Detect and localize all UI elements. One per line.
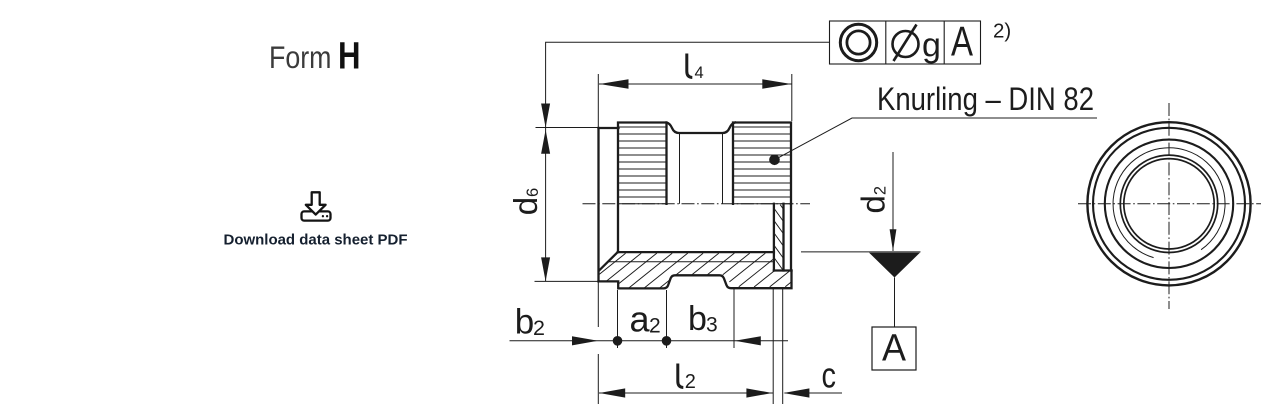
knurl band 1 <box>618 123 667 253</box>
c arrow <box>783 388 809 397</box>
d6 dimension line <box>545 128 547 281</box>
groove floor edges <box>680 133 723 204</box>
svg-text:2: 2 <box>685 371 696 393</box>
svg-text:b: b <box>688 300 707 338</box>
l2 and c dimension line <box>599 392 842 394</box>
dimension labels <box>507 54 1094 396</box>
download icon dots <box>322 215 329 217</box>
l4 dimension line <box>599 83 792 85</box>
svg-text:2: 2 <box>649 315 661 338</box>
end view <box>1078 103 1261 309</box>
b2 arrow <box>572 336 598 345</box>
svg-text:H: H <box>338 36 361 78</box>
datum triangle <box>869 253 920 278</box>
svg-text:c: c <box>822 354 837 395</box>
arrowheads <box>541 79 920 397</box>
svg-text:2: 2 <box>533 316 545 340</box>
svg-text:g: g <box>922 27 941 65</box>
svg-text:Download data sheet PDF: Download data sheet PDF <box>224 233 408 249</box>
l4 extension lines <box>598 74 792 127</box>
groove profile <box>667 123 736 134</box>
leader to tolerance frame <box>546 42 830 128</box>
thread major line <box>609 261 774 263</box>
knurl lines <box>619 127 791 204</box>
d2 arrow <box>890 229 897 251</box>
svg-text:4: 4 <box>695 64 704 82</box>
d6 extension lines <box>535 128 599 282</box>
svg-text:2): 2) <box>993 20 1011 43</box>
hatching <box>599 205 791 288</box>
bottom profile <box>599 271 792 289</box>
centerline side view <box>583 203 811 205</box>
svg-text:Knurling – DIN 82: Knurling – DIN 82 <box>877 81 1094 117</box>
svg-text:3: 3 <box>706 314 718 337</box>
svg-text:A: A <box>951 18 973 65</box>
a2 reference dots <box>613 336 623 346</box>
d2 extension line <box>801 251 921 253</box>
svg-text:A: A <box>882 328 907 370</box>
svg-text:Form: Form <box>269 39 332 75</box>
chamfer <box>599 252 617 270</box>
svg-text:a: a <box>630 298 651 339</box>
download icon <box>302 192 331 220</box>
disc/recess bottom <box>774 269 792 271</box>
l4 arrows <box>600 79 629 89</box>
svg-text:b: b <box>515 303 534 342</box>
bottom extension lines <box>598 282 782 404</box>
b3 arrow <box>735 336 761 345</box>
title Form H <box>269 36 361 78</box>
disc walls <box>774 204 791 271</box>
d6 leader arrow <box>541 104 550 128</box>
knurl band 2 <box>733 123 791 204</box>
d2 dimension line <box>892 152 894 251</box>
tolerance frame <box>830 21 981 64</box>
knurling leader dot <box>769 155 780 166</box>
side view body <box>599 123 792 289</box>
bore line <box>618 251 774 253</box>
left face <box>597 128 599 281</box>
pilot top edge <box>599 127 619 129</box>
b dimension line <box>510 340 789 342</box>
thin interior lines <box>609 127 791 262</box>
datum stem <box>894 278 896 328</box>
knurling leader <box>775 118 1098 160</box>
d6 dim arrows <box>541 130 550 154</box>
datum box <box>872 327 916 370</box>
l2 arrows <box>599 388 625 397</box>
